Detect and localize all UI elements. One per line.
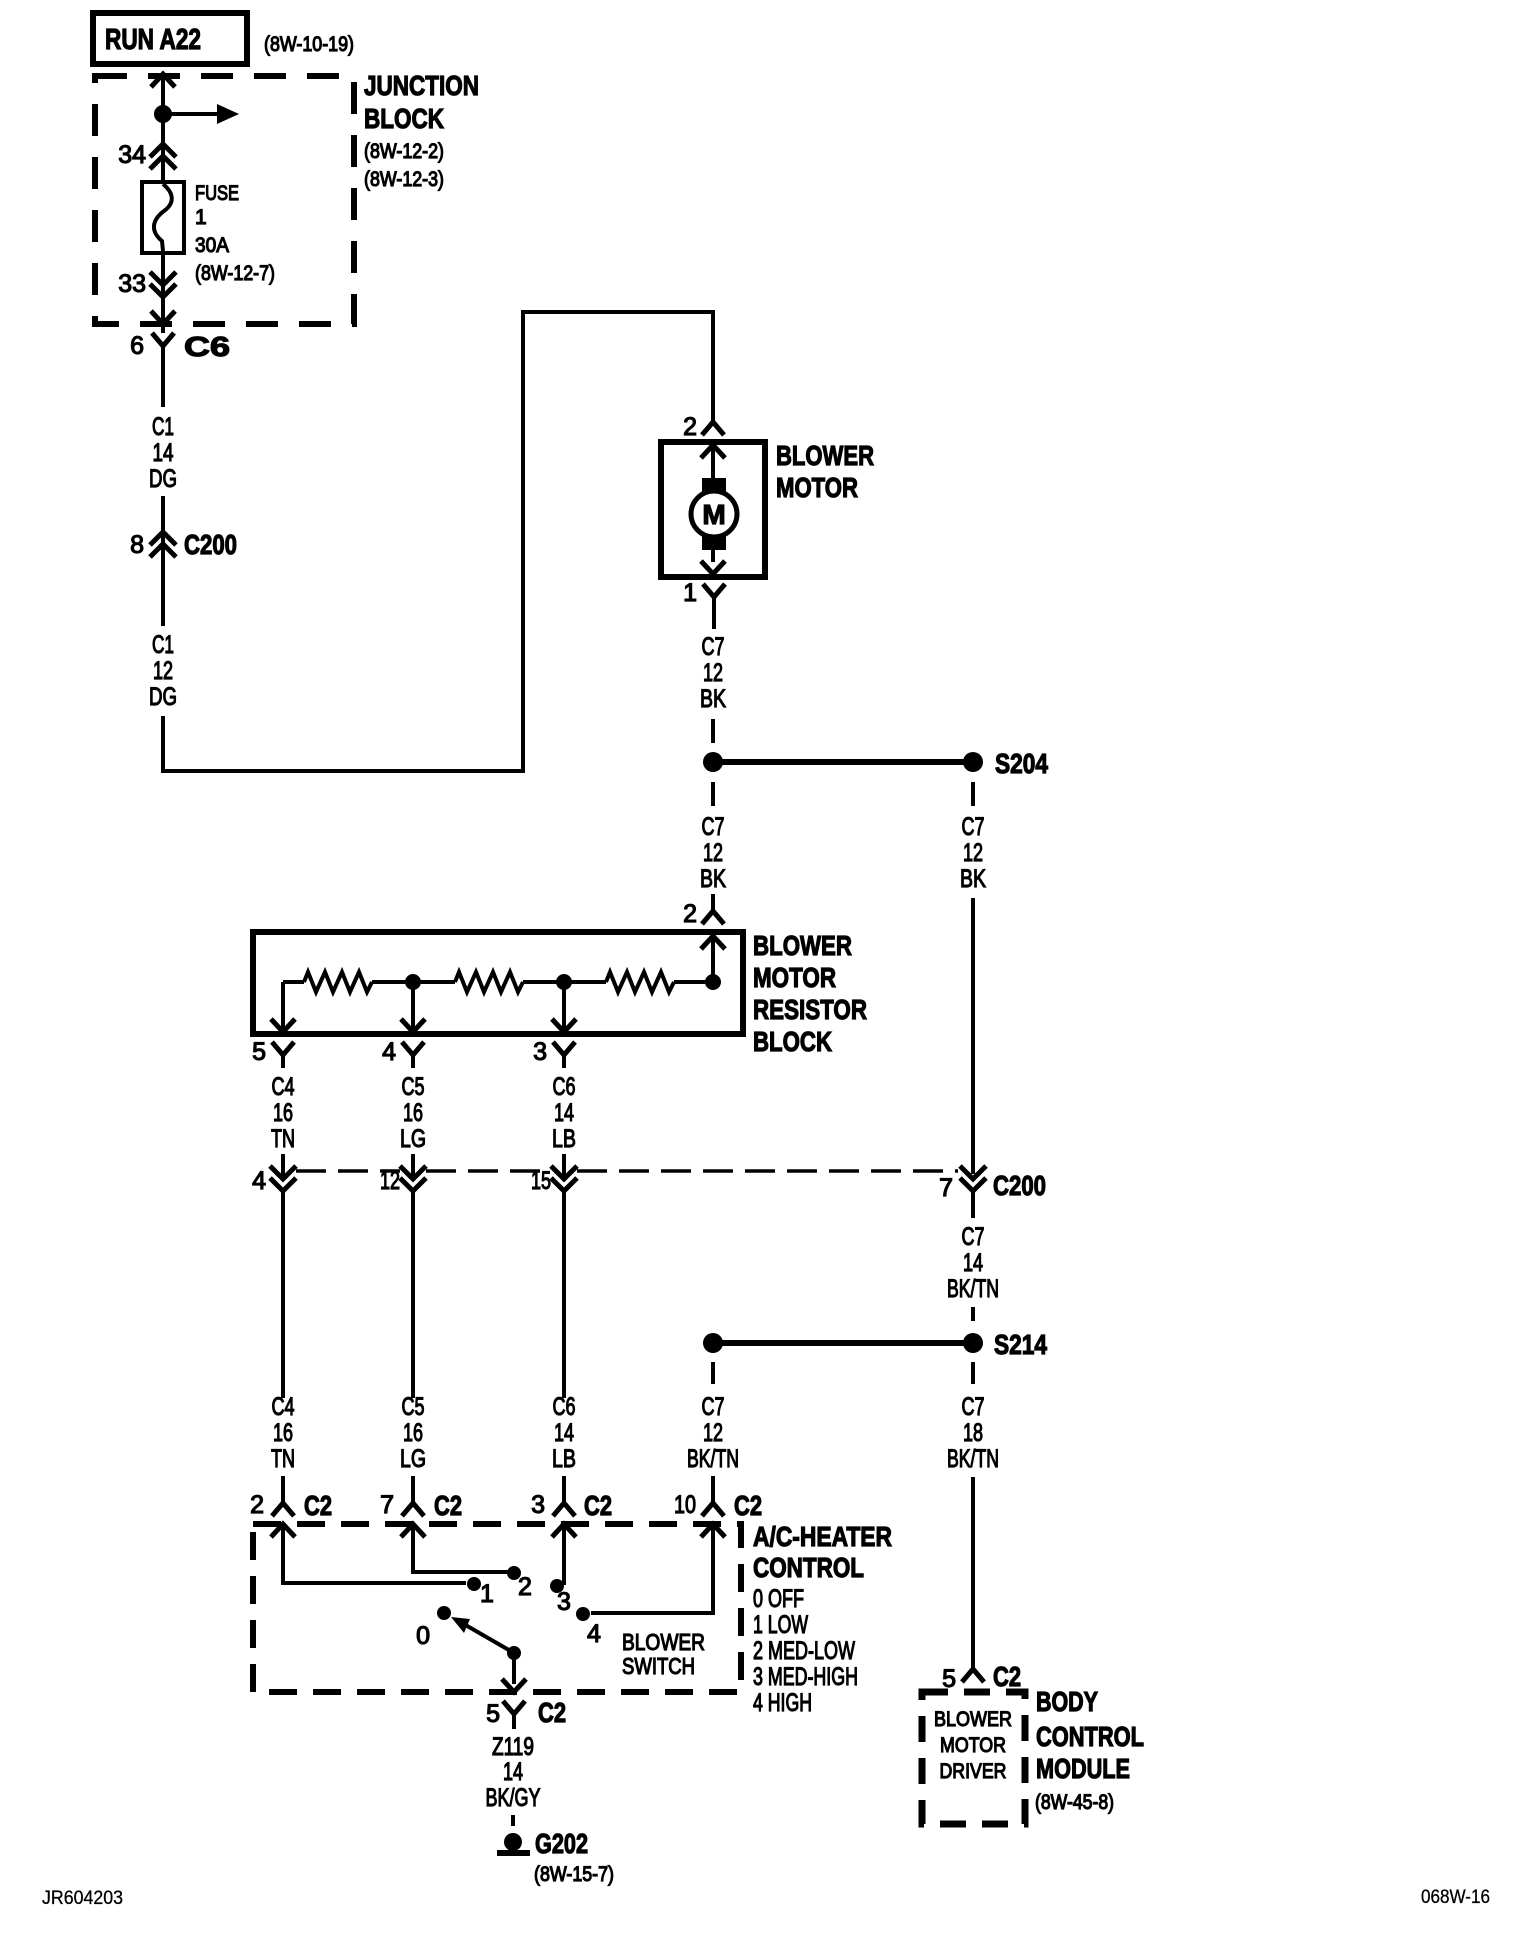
svg-text:S204: S204 (995, 748, 1048, 779)
svg-text:33: 33 (118, 270, 146, 298)
svg-text:BK/TN: BK/TN (947, 1275, 999, 1303)
svg-text:A/C-HEATER: A/C-HEATER (753, 1521, 892, 1552)
connector pin 33 (118, 253, 176, 311)
svg-text:6: 6 (130, 332, 144, 360)
node resistor feed (705, 974, 721, 990)
svg-text:RESISTOR: RESISTOR (753, 994, 867, 1025)
svg-text:18: 18 (963, 1419, 983, 1447)
blower motor (661, 440, 874, 577)
svg-text:8: 8 (130, 531, 144, 559)
wire tap to pin 3 (552, 982, 576, 1032)
wire switch position 2 feed (401, 1524, 508, 1572)
svg-text:BLOWER: BLOWER (934, 1708, 1012, 1731)
svg-text:LG: LG (400, 1445, 426, 1473)
connector C2 pin 2 (250, 1476, 332, 1521)
blower motor resistor block box (253, 930, 867, 1057)
wire label C4 16 TN lower (271, 1393, 295, 1473)
connector C200 dashed line (296, 1170, 1046, 1201)
svg-text:5: 5 (486, 1700, 500, 1728)
splice S214 (703, 1329, 1047, 1360)
wire label C4 16 TN upper (271, 1073, 295, 1153)
node resistor tap 3 (556, 974, 572, 990)
svg-text:LB: LB (552, 1445, 576, 1473)
junction block box (95, 70, 479, 324)
svg-text:(8W-12-7): (8W-12-7) (195, 262, 275, 285)
svg-text:C2: C2 (584, 1490, 612, 1521)
svg-text:FUSE: FUSE (195, 182, 239, 205)
wire label C5 16 LG lower (400, 1393, 426, 1473)
svg-text:CONTROL: CONTROL (753, 1552, 864, 1583)
ground G202 (497, 1828, 614, 1886)
svg-text:30A: 30A (195, 234, 229, 257)
svg-text:C200: C200 (993, 1170, 1046, 1201)
svg-text:BODY: BODY (1036, 1686, 1098, 1717)
svg-text:M: M (702, 499, 725, 530)
svg-text:C7: C7 (702, 633, 725, 661)
svg-text:JR604203: JR604203 (42, 1888, 123, 1909)
wire segment to C200 (161, 496, 165, 626)
svg-text:BK/TN: BK/TN (687, 1445, 739, 1473)
svg-text:5: 5 (252, 1038, 266, 1066)
svg-text:12: 12 (153, 657, 173, 685)
blower motor connector pin 1 (683, 579, 725, 629)
svg-text:MOTOR: MOTOR (940, 1734, 1006, 1757)
svg-text:C4: C4 (272, 1393, 295, 1421)
wire label C7 12 BK left (700, 813, 726, 893)
resistor R3 (523, 972, 713, 992)
svg-text:SWITCH: SWITCH (622, 1653, 695, 1679)
svg-text:BK/GY: BK/GY (486, 1784, 541, 1812)
svg-text:2 MED-LOW: 2 MED-LOW (753, 1637, 855, 1665)
node junction-block feed dot (154, 105, 172, 123)
wire tap to pin 5 (271, 982, 295, 1032)
connector C6 pin 6 (130, 331, 230, 407)
svg-text:16: 16 (273, 1099, 293, 1127)
wire segment below splice left (711, 782, 715, 806)
svg-text:LB: LB (552, 1125, 576, 1153)
svg-text:BLOCK: BLOCK (753, 1026, 832, 1057)
svg-text:TN: TN (271, 1445, 295, 1473)
svg-text:34: 34 (118, 141, 146, 169)
wire label C7 14 BK/TN (947, 1223, 999, 1303)
svg-text:CONTROL: CONTROL (1036, 1721, 1144, 1752)
svg-text:C7: C7 (962, 813, 985, 841)
connector C200 pin 15 (531, 1154, 577, 1398)
wire switch position 4 feed (591, 1524, 725, 1613)
svg-text:1: 1 (480, 1580, 494, 1608)
blower switch wiper (451, 1617, 705, 1679)
svg-text:12: 12 (963, 839, 983, 867)
wire label C7 12 BK right (960, 813, 986, 893)
wire pin2 entry arrow (701, 936, 725, 982)
reference (8W-10-19) (264, 33, 354, 56)
fuse 1 30A (142, 182, 275, 285)
svg-text:BLOWER: BLOWER (776, 440, 874, 471)
wire segment to ground (511, 1815, 515, 1826)
svg-text:BK: BK (700, 865, 726, 893)
svg-text:C6: C6 (184, 331, 230, 362)
svg-text:4: 4 (382, 1038, 396, 1066)
wire label C6 14 LB lower (552, 1393, 576, 1473)
svg-text:(8W-12-3): (8W-12-3) (364, 168, 444, 191)
node switch contact 1 (467, 1577, 494, 1608)
connector C2 pin 7 (380, 1476, 462, 1521)
footer page id (1421, 1887, 1490, 1908)
svg-text:BLOCK: BLOCK (364, 103, 444, 134)
connector pin 3 (533, 1038, 575, 1068)
node switch contact 0 (416, 1606, 451, 1650)
svg-text:14: 14 (963, 1249, 983, 1277)
wire label C1 14 DG (149, 413, 177, 493)
connector C2 pin 5 (486, 1697, 566, 1729)
wire switch position 3 feed (552, 1524, 576, 1585)
node switch contact 4 (576, 1607, 601, 1648)
svg-text:4 HIGH: 4 HIGH (753, 1689, 812, 1717)
svg-text:C2: C2 (993, 1661, 1021, 1692)
svg-text:12: 12 (703, 839, 723, 867)
svg-text:DG: DG (149, 465, 177, 493)
svg-text:(8W-45-8): (8W-45-8) (1035, 1791, 1114, 1814)
svg-text:DG: DG (149, 683, 177, 711)
splice S204 (703, 748, 1048, 779)
svg-text:TN: TN (271, 1125, 295, 1153)
svg-text:3: 3 (533, 1038, 547, 1066)
svg-text:C7: C7 (962, 1223, 985, 1251)
svg-text:2: 2 (250, 1491, 264, 1519)
svg-text:BLOWER: BLOWER (622, 1629, 705, 1655)
blower motor connector pin 2 (683, 413, 724, 441)
svg-text:4: 4 (252, 1167, 266, 1195)
svg-text:2: 2 (683, 900, 697, 928)
svg-text:C6: C6 (553, 1073, 576, 1101)
connector C200 pin 4 (252, 1154, 296, 1398)
svg-text:1: 1 (195, 206, 207, 229)
svg-text:068W-16: 068W-16 (1421, 1887, 1490, 1908)
svg-text:7: 7 (939, 1174, 953, 1202)
svg-text:DRIVER: DRIVER (940, 1760, 1007, 1783)
connector C200 pin 12 (380, 1154, 426, 1398)
svg-text:C7: C7 (702, 813, 725, 841)
node switch contact 2 (507, 1566, 532, 1601)
svg-text:MOTOR: MOTOR (776, 472, 858, 503)
svg-text:12: 12 (380, 1167, 400, 1195)
svg-text:C4: C4 (272, 1073, 295, 1101)
svg-text:2: 2 (518, 1573, 532, 1601)
svg-text:BK: BK (700, 685, 726, 713)
svg-text:BLOWER: BLOWER (753, 930, 852, 961)
wire label C7 12 BK (700, 633, 726, 713)
wire A22 into junction block (151, 74, 175, 182)
svg-text:14: 14 (554, 1099, 574, 1127)
svg-text:RUN A22: RUN A22 (105, 24, 201, 56)
wire segment below S214 right (971, 1362, 975, 1384)
connector C2 pin 3 (531, 1476, 612, 1521)
connector C2 pin 5 BCM (942, 1661, 1021, 1693)
connector pin 34 (118, 141, 176, 169)
svg-text:7: 7 (380, 1491, 394, 1519)
wire exit arrow at junction block bottom (151, 311, 175, 333)
svg-text:1: 1 (683, 579, 697, 607)
svg-text:16: 16 (403, 1419, 423, 1447)
svg-text:3 MED-HIGH: 3 MED-HIGH (753, 1663, 858, 1691)
wire tap to pin 4 (401, 982, 425, 1032)
wire segment above splice (711, 719, 715, 743)
svg-text:BK: BK (960, 865, 986, 893)
svg-text:12: 12 (703, 1419, 723, 1447)
connector C2 pin 10 (674, 1476, 762, 1521)
svg-text:3: 3 (557, 1588, 571, 1616)
svg-text:MOTOR: MOTOR (753, 962, 836, 993)
svg-text:S214: S214 (994, 1329, 1047, 1360)
svg-text:C1: C1 (152, 413, 174, 441)
svg-text:(8W-10-19): (8W-10-19) (264, 33, 354, 56)
wire label C5 16 LG upper (400, 1073, 426, 1153)
svg-text:14: 14 (554, 1419, 574, 1447)
wire to body control module (971, 1477, 975, 1669)
svg-text:C5: C5 (402, 1393, 425, 1421)
svg-text:C1: C1 (152, 631, 174, 659)
svg-text:C2: C2 (734, 1490, 762, 1521)
svg-text:C2: C2 (434, 1490, 462, 1521)
svg-text:LG: LG (400, 1125, 426, 1153)
svg-text:Z119: Z119 (492, 1733, 534, 1761)
svg-text:C7: C7 (962, 1393, 985, 1421)
svg-text:4: 4 (587, 1620, 601, 1648)
svg-text:(8W-12-2): (8W-12-2) (364, 140, 444, 163)
svg-text:12: 12 (703, 659, 723, 687)
node switch contact 3 (550, 1579, 571, 1616)
wire label C7 18 BK/TN lower (947, 1393, 999, 1473)
connector C200 pin 7 (939, 898, 986, 1218)
arrow to other circuits (163, 104, 239, 124)
svg-text:C2: C2 (304, 1490, 332, 1521)
wire label C6 14 LB upper (552, 1073, 576, 1153)
wire segment above S214 (971, 1307, 975, 1321)
svg-text:C6: C6 (553, 1393, 576, 1421)
svg-text:C5: C5 (402, 1073, 425, 1101)
svg-text:C200: C200 (184, 529, 237, 560)
wire segment below splice right (971, 782, 975, 806)
svg-text:1 LOW: 1 LOW (753, 1611, 808, 1639)
svg-text:14: 14 (503, 1758, 523, 1786)
resistor R1 (283, 972, 372, 992)
a/c-heater control box (253, 1521, 892, 1717)
wire segment below S214 left (711, 1362, 715, 1384)
svg-text:2: 2 (683, 413, 697, 441)
svg-text:16: 16 (403, 1099, 423, 1127)
wire switch position 1 feed (271, 1524, 466, 1583)
body control module box blower motor driver (922, 1686, 1144, 1824)
svg-text:0 OFF: 0 OFF (753, 1585, 804, 1613)
footer sheet id (42, 1888, 123, 1909)
wire label C7 12 BK/TN lower (687, 1393, 739, 1473)
connector pin 4 (382, 1038, 424, 1068)
svg-text:G202: G202 (535, 1828, 588, 1859)
svg-text:16: 16 (273, 1419, 293, 1447)
wire label Z119 14 BK/GY (486, 1733, 541, 1812)
wire run to blower motor (163, 312, 713, 771)
svg-text:10: 10 (674, 1491, 696, 1519)
svg-text:JUNCTION: JUNCTION (364, 70, 479, 101)
svg-text:MODULE: MODULE (1036, 1753, 1130, 1784)
svg-text:14: 14 (153, 439, 174, 467)
svg-text:C7: C7 (702, 1393, 725, 1421)
connector pin 5 (252, 1038, 294, 1068)
power feed box RUN A22 (93, 13, 247, 64)
resistor R2 (372, 972, 523, 992)
resistor block connector pin 2 (683, 894, 724, 928)
node resistor tap 4 (405, 974, 421, 990)
svg-text:C2: C2 (538, 1697, 566, 1728)
svg-text:BK/TN: BK/TN (947, 1445, 999, 1473)
connector C200 pin 8 (130, 529, 237, 560)
svg-text:(8W-15-7): (8W-15-7) (534, 1863, 614, 1886)
svg-text:3: 3 (531, 1491, 545, 1519)
wire label C1 12 DG (149, 631, 177, 711)
svg-text:15: 15 (531, 1167, 551, 1195)
wire switch output (502, 1653, 526, 1692)
svg-text:0: 0 (416, 1622, 430, 1650)
